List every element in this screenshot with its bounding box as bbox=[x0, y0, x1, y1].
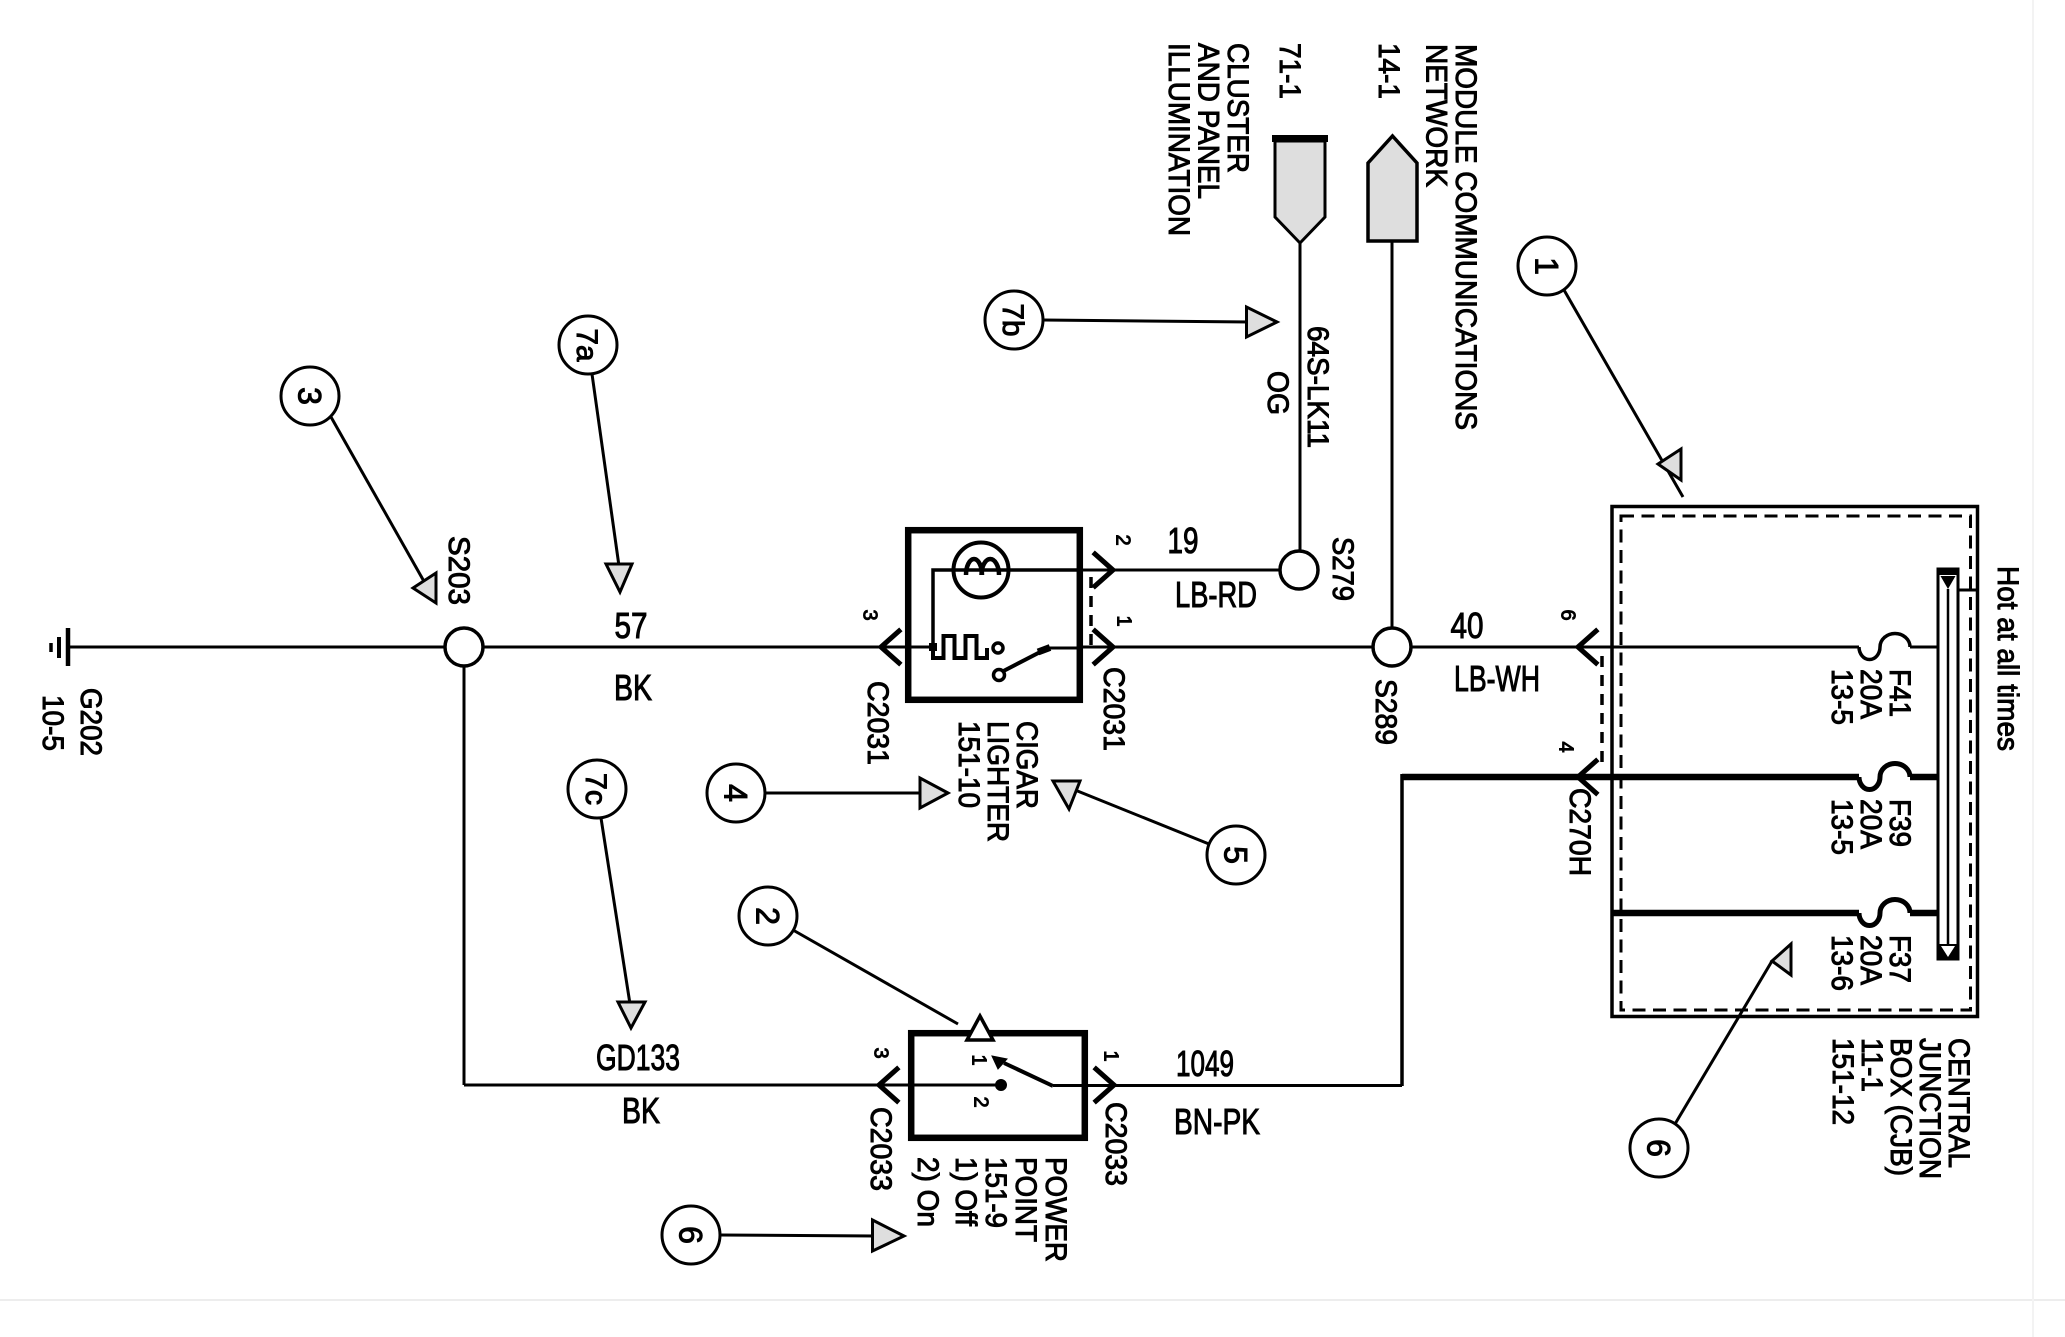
callout circle 7c with arrow to GD133 bbox=[568, 760, 645, 1028]
bus bar Hot at all times bbox=[1937, 566, 2024, 959]
label CENTRAL JUNCTION BOX (CJB) 11-1 151-12 bbox=[1826, 1038, 1975, 1179]
svg-text:C2031: C2031 bbox=[861, 681, 894, 765]
callout circle 3 with arrow to S203 bbox=[281, 367, 436, 603]
wire: ground to S203, circuit 57 BK bbox=[70, 646, 445, 649]
svg-text:13-6: 13-6 bbox=[1825, 935, 1858, 991]
fuse F41 20A 13-5 bbox=[1825, 634, 1938, 726]
pin 4 chevron of C270H bbox=[1555, 741, 1596, 793]
splice S203 bbox=[442, 536, 483, 666]
svg-text:2: 2 bbox=[1112, 534, 1134, 545]
svg-text:G202: G202 bbox=[74, 688, 107, 756]
faint scan line bbox=[0, 1299, 2065, 1301]
svg-text:6: 6 bbox=[1640, 1139, 1676, 1157]
svg-text:C2031: C2031 bbox=[1097, 667, 1130, 751]
callout circle 7b with arrow to wire 19 bbox=[985, 291, 1277, 349]
svg-text:1: 1 bbox=[968, 1054, 990, 1065]
svg-text:1) Off: 1) Off bbox=[949, 1157, 982, 1227]
svg-text:3: 3 bbox=[870, 1047, 892, 1058]
svg-text:3: 3 bbox=[859, 609, 881, 620]
callout circle 4 with arrow bbox=[707, 764, 948, 822]
svg-text:S279: S279 bbox=[1326, 537, 1359, 601]
connector C270H dashed boundary bbox=[1600, 656, 1604, 770]
svg-text:7a: 7a bbox=[570, 329, 603, 362]
pin 3 chevron of C2031 bbox=[859, 609, 899, 663]
pin 6 chevron of C270H bbox=[1557, 609, 1596, 663]
svg-text:BK: BK bbox=[614, 667, 652, 708]
svg-text:7c: 7c bbox=[579, 773, 612, 805]
svg-text:BN-PK: BN-PK bbox=[1174, 1101, 1260, 1142]
off-page connector 14-1 MODULE COMMUNICATIONS NETWORK bbox=[1368, 43, 1482, 430]
callout circle 7a with arrow bbox=[559, 316, 632, 592]
wire 19 LB-RD: cigar lighter pin 2 to S279 bbox=[1046, 520, 1279, 648]
switch inside cigar lighter bbox=[994, 648, 1051, 681]
svg-text:151-10: 151-10 bbox=[952, 721, 985, 808]
svg-text:BK: BK bbox=[622, 1090, 660, 1131]
svg-text:LB-WH: LB-WH bbox=[1454, 658, 1540, 699]
svg-text:C2033: C2033 bbox=[864, 1107, 897, 1191]
svg-text:4: 4 bbox=[717, 784, 753, 802]
svg-text:13-5: 13-5 bbox=[1825, 669, 1858, 725]
splice S289 bbox=[1369, 628, 1411, 745]
wire into power point pin 3 bbox=[464, 666, 996, 1131]
svg-text:S203: S203 bbox=[442, 536, 475, 605]
ground G202 bbox=[36, 628, 107, 756]
pin 1 chevron of C2033 bbox=[1096, 1050, 1122, 1101]
wire 1049 BN-PK: power point pin 1 to vertical bbox=[1053, 1043, 1402, 1142]
label POWER POINT 151-9 1) Off 2) On bbox=[911, 1157, 1072, 1262]
svg-text:6: 6 bbox=[672, 1226, 708, 1244]
wire OG 64S-LK11: connector 71-1 down to S279 bbox=[1261, 243, 1334, 551]
svg-text:1: 1 bbox=[1113, 615, 1135, 626]
svg-text:71-1: 71-1 bbox=[1273, 43, 1306, 99]
central junction box outline bbox=[1612, 507, 1978, 1017]
svg-text:NETWORK: NETWORK bbox=[1420, 44, 1453, 187]
svg-text:1: 1 bbox=[1100, 1050, 1122, 1061]
svg-text:OG: OG bbox=[1261, 371, 1294, 415]
callout circle 5 with arrow bbox=[1053, 781, 1265, 884]
svg-text:1049: 1049 bbox=[1176, 1043, 1234, 1084]
power point box bbox=[911, 1033, 1085, 1138]
svg-text:2: 2 bbox=[970, 1096, 992, 1107]
svg-text:MODULE COMMUNICATIONS: MODULE COMMUNICATIONS bbox=[1449, 44, 1482, 430]
connector C2031 dashed boundary right of cigar lighter bbox=[1089, 577, 1093, 645]
thick wire from CJB pin 4 down bbox=[1400, 774, 1404, 1086]
svg-text:3: 3 bbox=[291, 387, 327, 405]
callout circle 6 with arrow into CJB bbox=[1630, 944, 1791, 1177]
cigar lighter box bbox=[908, 530, 1080, 700]
svg-text:6: 6 bbox=[1557, 609, 1579, 620]
svg-text:CLUSTER: CLUSTER bbox=[1221, 43, 1254, 173]
heating element inside cigar lighter bbox=[933, 636, 1003, 658]
callout circle 2 with arrow to power point bbox=[739, 887, 993, 1040]
switch inside power point bbox=[968, 1054, 1053, 1107]
svg-text:AND PANEL: AND PANEL bbox=[1192, 43, 1225, 199]
svg-text:2: 2 bbox=[749, 907, 785, 925]
lamp branch wire inside cigar lighter bbox=[929, 570, 1083, 651]
svg-text:5: 5 bbox=[1217, 846, 1253, 864]
svg-text:C2033: C2033 bbox=[1099, 1102, 1132, 1186]
wire 40 LB-WH: S289 to CJB pin 6 bbox=[1411, 605, 1859, 699]
svg-text:151-12: 151-12 bbox=[1826, 1038, 1859, 1125]
svg-text:7b: 7b bbox=[996, 304, 1029, 337]
svg-text:64S-LK11: 64S-LK11 bbox=[1301, 326, 1334, 448]
lamp symbol inside cigar lighter bbox=[954, 543, 1009, 598]
svg-text:POINT: POINT bbox=[1009, 1157, 1042, 1242]
svg-text:14-1: 14-1 bbox=[1372, 43, 1405, 99]
svg-text:4: 4 bbox=[1555, 741, 1577, 752]
fuse F39 20A 13-5 with thick feed bbox=[1402, 764, 1938, 856]
svg-text:19: 19 bbox=[1168, 520, 1199, 561]
svg-text:C270H: C270H bbox=[1563, 788, 1596, 876]
pin 3 chevron of C2033 bbox=[870, 1047, 897, 1101]
svg-text:GD133: GD133 bbox=[596, 1037, 680, 1078]
splice S279 bbox=[1280, 537, 1359, 601]
svg-text:2) On: 2) On bbox=[911, 1157, 944, 1227]
wire: connector 14-1 down to S289 bbox=[1391, 241, 1394, 628]
callout circle 1 with arrow to CJB bbox=[1518, 237, 1683, 497]
callout circle 6 with arrow to power point ground side bbox=[662, 1206, 904, 1264]
svg-text:40: 40 bbox=[1451, 605, 1484, 646]
pin 1 chevron of C2031 bbox=[1095, 615, 1135, 663]
svg-text:POWER: POWER bbox=[1039, 1157, 1072, 1262]
svg-text:151-9: 151-9 bbox=[979, 1157, 1012, 1228]
svg-text:57: 57 bbox=[615, 605, 648, 646]
pin 2 chevron of C2031 bbox=[1095, 534, 1134, 586]
wire 57 BK: S203 to cigar lighter pin 3 bbox=[483, 605, 933, 708]
svg-text:10-5: 10-5 bbox=[36, 695, 69, 751]
svg-text:Hot at all times: Hot at all times bbox=[1991, 566, 2024, 751]
wire pin1 to S289 bbox=[1083, 646, 1373, 649]
off-page connector 71-1 CLUSTER AND PANEL ILLUMINATION bbox=[1162, 43, 1328, 243]
svg-text:LB-RD: LB-RD bbox=[1175, 574, 1257, 615]
svg-text:S289: S289 bbox=[1369, 679, 1402, 745]
svg-text:13-5: 13-5 bbox=[1825, 799, 1858, 855]
fuse F37 20A 13-6 bbox=[1612, 900, 1938, 992]
label CIGAR LIGHTER 151-10 bbox=[952, 721, 1043, 842]
svg-text:1: 1 bbox=[1528, 257, 1564, 275]
svg-text:ILLUMINATION: ILLUMINATION bbox=[1162, 43, 1195, 236]
